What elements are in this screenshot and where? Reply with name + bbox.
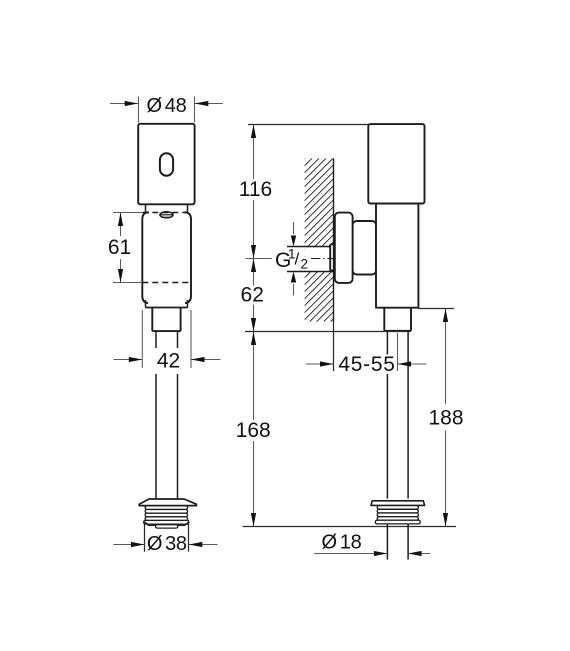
svg-text:42: 42 [157, 350, 180, 373]
svg-text:116: 116 [239, 178, 272, 201]
svg-text:45-55: 45-55 [338, 353, 395, 376]
svg-text:188: 188 [428, 406, 463, 429]
svg-text:Ø18: Ø18 [322, 531, 362, 553]
svg-text:62: 62 [241, 284, 264, 307]
svg-text:/: / [295, 250, 300, 269]
svg-text:61: 61 [108, 236, 131, 259]
svg-text:Ø48: Ø48 [147, 95, 187, 117]
svg-text:168: 168 [236, 419, 271, 442]
svg-text:2: 2 [301, 257, 309, 272]
svg-text:Ø38: Ø38 [147, 533, 187, 555]
